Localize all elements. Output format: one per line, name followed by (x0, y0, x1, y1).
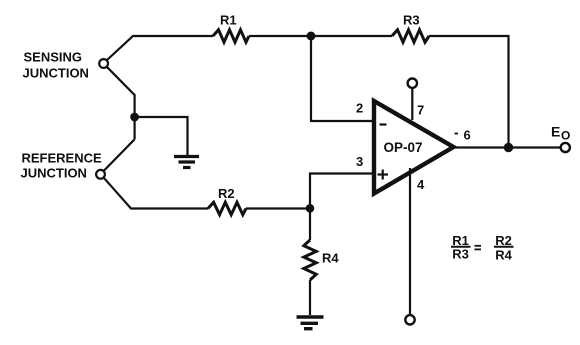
terminal pin 4 (405, 315, 414, 324)
terminal pin 7 (408, 79, 417, 88)
terminal sensing junction (99, 59, 108, 68)
node R2 R4 pin3 junction (306, 204, 315, 213)
equation R1/R3 = R2/R4 (452, 233, 512, 263)
resistor R4 (304, 240, 316, 280)
resistor R1 (213, 30, 249, 42)
wire R3 to output node (429, 36, 509, 148)
dash before pin 6 (455, 133, 459, 135)
op-amp minus sign (380, 123, 387, 125)
equals sign (475, 246, 482, 250)
wire R4 to ground (309, 280, 311, 315)
pin 7 wire (411, 88, 413, 120)
pin 6 output wire (455, 146, 561, 148)
node output junction (504, 143, 513, 152)
wire node to reference junction (104, 139, 135, 171)
svg-text:R4: R4 (322, 251, 339, 266)
svg-text:O: O (561, 129, 570, 143)
terminal Eo (561, 143, 570, 152)
svg-text:R2: R2 (218, 186, 235, 201)
wire node to ground (135, 117, 188, 155)
svg-text:REFERENCE: REFERENCE (22, 151, 103, 166)
wire R1 to R3 (249, 35, 392, 37)
fraction bar R2/R4 (494, 246, 514, 248)
svg-text:OP-07: OP-07 (384, 140, 423, 155)
svg-text:JUNCTION: JUNCTION (23, 66, 89, 81)
svg-text:JUNCTION: JUNCTION (21, 166, 87, 181)
svg-text:4: 4 (417, 177, 425, 192)
wire junction to pin 2 (311, 36, 372, 121)
svg-text:7: 7 (417, 103, 424, 118)
svg-text:R2: R2 (495, 233, 512, 248)
node thermocouple common (130, 113, 139, 122)
wire sensing junction to top rail (107, 36, 213, 60)
svg-text:6: 6 (464, 128, 471, 143)
resistor R3 (392, 30, 429, 42)
op-amp U1 OP-07 (374, 101, 454, 194)
svg-text:3: 3 (356, 154, 363, 169)
svg-text:SENSING: SENSING (24, 50, 83, 65)
svg-text:2: 2 (356, 101, 363, 116)
fraction bar R1/R3 (451, 246, 471, 248)
wire node to R4 (309, 209, 311, 241)
terminal reference junction (96, 170, 105, 179)
wire reference junction to R2 (104, 178, 208, 209)
op-amp plus sign (378, 170, 389, 180)
pin 4 wire (409, 168, 411, 315)
resistor R2 (208, 202, 246, 214)
node pin2 feedback junction (307, 32, 316, 41)
wire sensing junction to thermocouple node (107, 67, 135, 140)
svg-text:E: E (551, 124, 560, 140)
svg-text:R3: R3 (452, 247, 469, 262)
svg-text:R3: R3 (403, 13, 420, 28)
ground (R4) (297, 317, 324, 329)
ground (reference) (174, 157, 199, 168)
wire node to pin 3 (310, 174, 372, 209)
svg-text:R1: R1 (220, 13, 237, 28)
wire R2 to node (246, 207, 310, 209)
svg-text:R4: R4 (495, 248, 512, 263)
